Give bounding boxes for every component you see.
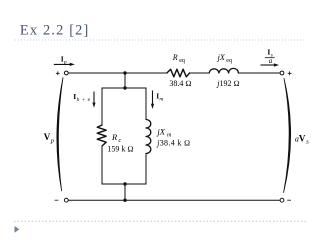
svg-text:m: m	[159, 96, 163, 102]
voltage brace aVs (right parenthesis)	[284, 78, 291, 192]
svg-text:38.4 Ω: 38.4 Ω	[169, 79, 191, 88]
svg-text:jX: jX	[156, 126, 165, 136]
svg-text:V: V	[299, 134, 306, 144]
terminal top-right	[280, 71, 284, 75]
wire Rc branch lower lead	[101, 146, 103, 184]
wire top-left segment	[68, 72, 167, 74]
svg-text:eq: eq	[179, 58, 185, 64]
title dotted separator	[15, 39, 304, 41]
footer dotted separator	[14, 220, 306, 222]
wire top-right segment	[238, 72, 280, 74]
svg-text:jX: jX	[217, 53, 226, 62]
svg-text:h + e: h + e	[77, 97, 91, 103]
junction dot top node	[123, 71, 126, 74]
svg-text:p: p	[63, 59, 67, 65]
wire jXm branch upper lead	[145, 88, 147, 120]
svg-text:j38.4 k Ω: j38.4 k Ω	[156, 138, 190, 147]
voltage brace Vp (left parenthesis)	[57, 78, 63, 191]
wire shunt top drop	[124, 73, 126, 88]
terminal bottom-right	[280, 198, 284, 202]
svg-text:159 k Ω: 159 k Ω	[107, 144, 133, 153]
svg-text:s: s	[306, 138, 309, 145]
resistor Req symbol	[167, 69, 190, 77]
inductor jXm symbol	[146, 120, 151, 154]
junction dot shunt box top	[123, 86, 126, 89]
terminal top-left	[64, 71, 68, 75]
svg-text:eq: eq	[226, 58, 232, 64]
svg-text:R: R	[111, 132, 118, 142]
svg-text:j192 Ω: j192 Ω	[216, 79, 239, 88]
footer bullet triangle	[15, 226, 20, 233]
current arrow Im	[152, 91, 154, 106]
current arrow Is/a	[261, 64, 276, 66]
svg-text:V: V	[44, 132, 51, 142]
svg-text:m: m	[167, 132, 172, 138]
terminal bottom-left	[64, 198, 68, 202]
inductor jXeq symbol	[209, 68, 238, 73]
svg-text:R: R	[172, 53, 178, 62]
minus sign bottom-right	[287, 199, 291, 201]
plus sign top-left	[56, 71, 60, 75]
wire shunt box bottom edge	[102, 183, 146, 185]
svg-text:p: p	[50, 137, 55, 144]
svg-text:c: c	[118, 137, 121, 144]
svg-text:Ex 2.2 [2]: Ex 2.2 [2]	[20, 22, 90, 38]
wire Rc branch upper lead	[101, 88, 103, 125]
minus sign bottom-left	[55, 199, 59, 201]
svg-text:a: a	[269, 57, 273, 65]
resistor Rc symbol	[97, 125, 106, 146]
wire shunt bottom drop	[124, 184, 126, 200]
junction dot shunt box bottom	[123, 182, 126, 185]
junction dot bottom node	[123, 199, 126, 202]
wire bottom rail	[68, 199, 280, 201]
current arrow Ip	[54, 63, 72, 65]
wire between Req and jXeq	[190, 72, 210, 74]
wire shunt box top edge	[102, 87, 146, 89]
wire jXm branch lower lead	[145, 154, 147, 185]
plus sign top-right	[288, 71, 292, 75]
current arrow Ih+e	[93, 92, 95, 105]
